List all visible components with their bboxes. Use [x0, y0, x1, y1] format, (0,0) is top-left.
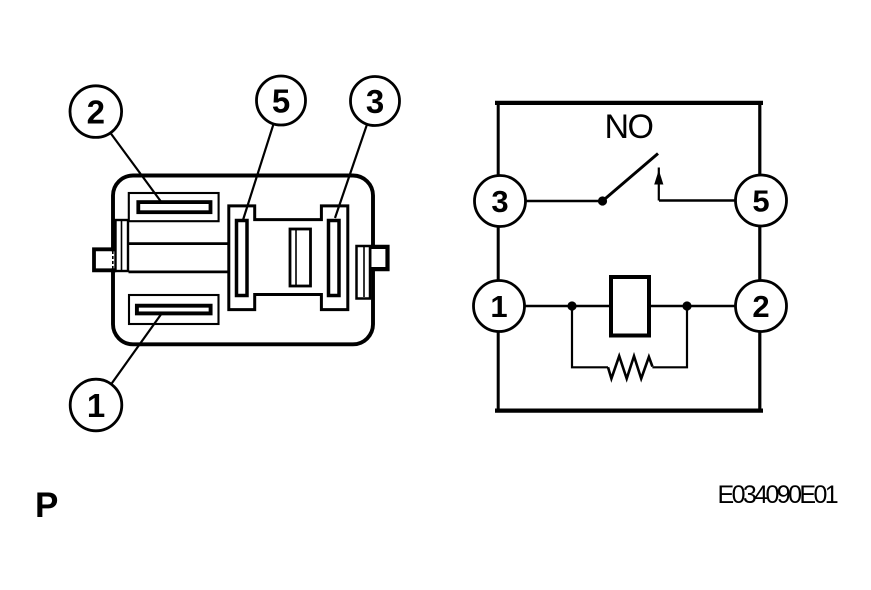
- callout circle 2: [70, 86, 122, 138]
- node circle 3: [475, 176, 526, 227]
- leader line to pin 1: [111, 313, 162, 384]
- svg-text:5: 5: [272, 82, 290, 119]
- schematic case top edge: [495, 101, 763, 105]
- wire arrow to node 5: [659, 199, 736, 202]
- switch contact dot: [598, 196, 607, 205]
- schematic case right edge: [758, 101, 761, 412]
- center terminal housing outline: [229, 206, 348, 310]
- leader line to pin 5: [243, 124, 273, 220]
- junction dot left: [567, 301, 576, 310]
- wire junction to coil: [572, 305, 611, 308]
- schematic case bottom edge: [495, 408, 763, 412]
- svg-text:1: 1: [490, 289, 507, 324]
- svg-text:1: 1: [87, 387, 105, 424]
- node circle 5: [736, 175, 787, 226]
- wire node 3 to contact: [526, 200, 603, 203]
- relay coil: [611, 277, 649, 336]
- callout circle 3: [351, 77, 400, 126]
- svg-text:E034090E01: E034090E01: [718, 481, 838, 509]
- left guide bar: [116, 220, 129, 271]
- svg-text:5: 5: [752, 184, 769, 219]
- leader line to pin 3: [335, 125, 367, 218]
- resistor R: [608, 356, 652, 379]
- right guide bar: [357, 246, 371, 299]
- node circle 1: [474, 281, 525, 332]
- wire junction to node 2: [687, 305, 736, 308]
- relay body outline: [113, 176, 373, 345]
- left keyway tab: [94, 249, 116, 270]
- center channel lines: [129, 244, 229, 272]
- svg-text:P: P: [35, 486, 58, 525]
- svg-text:3: 3: [491, 184, 508, 219]
- svg-text:3: 3: [366, 83, 384, 120]
- svg-text:NO: NO: [605, 108, 653, 146]
- junction dot right: [682, 301, 691, 310]
- right keyway tab: [371, 247, 388, 269]
- center keyway slot: [290, 229, 311, 286]
- switch blade: [603, 154, 659, 202]
- pin 2 terminal cavity: [129, 193, 219, 221]
- svg-text:2: 2: [752, 289, 769, 324]
- wire node 1 to junction: [525, 305, 573, 308]
- svg-text:2: 2: [87, 94, 105, 131]
- wire coil to junction: [649, 305, 687, 308]
- schematic case left edge: [497, 101, 500, 412]
- resistor branch right rise: [652, 306, 687, 367]
- callout circle 5: [257, 76, 306, 125]
- callout circle 1: [70, 379, 122, 431]
- resistor branch left drop: [572, 306, 608, 367]
- leader line to pin 2: [110, 133, 162, 203]
- pin 5 terminal slot: [237, 221, 248, 296]
- node circle 2: [736, 281, 787, 332]
- switch actuation arrow: [654, 168, 663, 201]
- pin 3 terminal slot: [329, 221, 340, 296]
- pin 1 terminal cavity: [129, 295, 219, 324]
